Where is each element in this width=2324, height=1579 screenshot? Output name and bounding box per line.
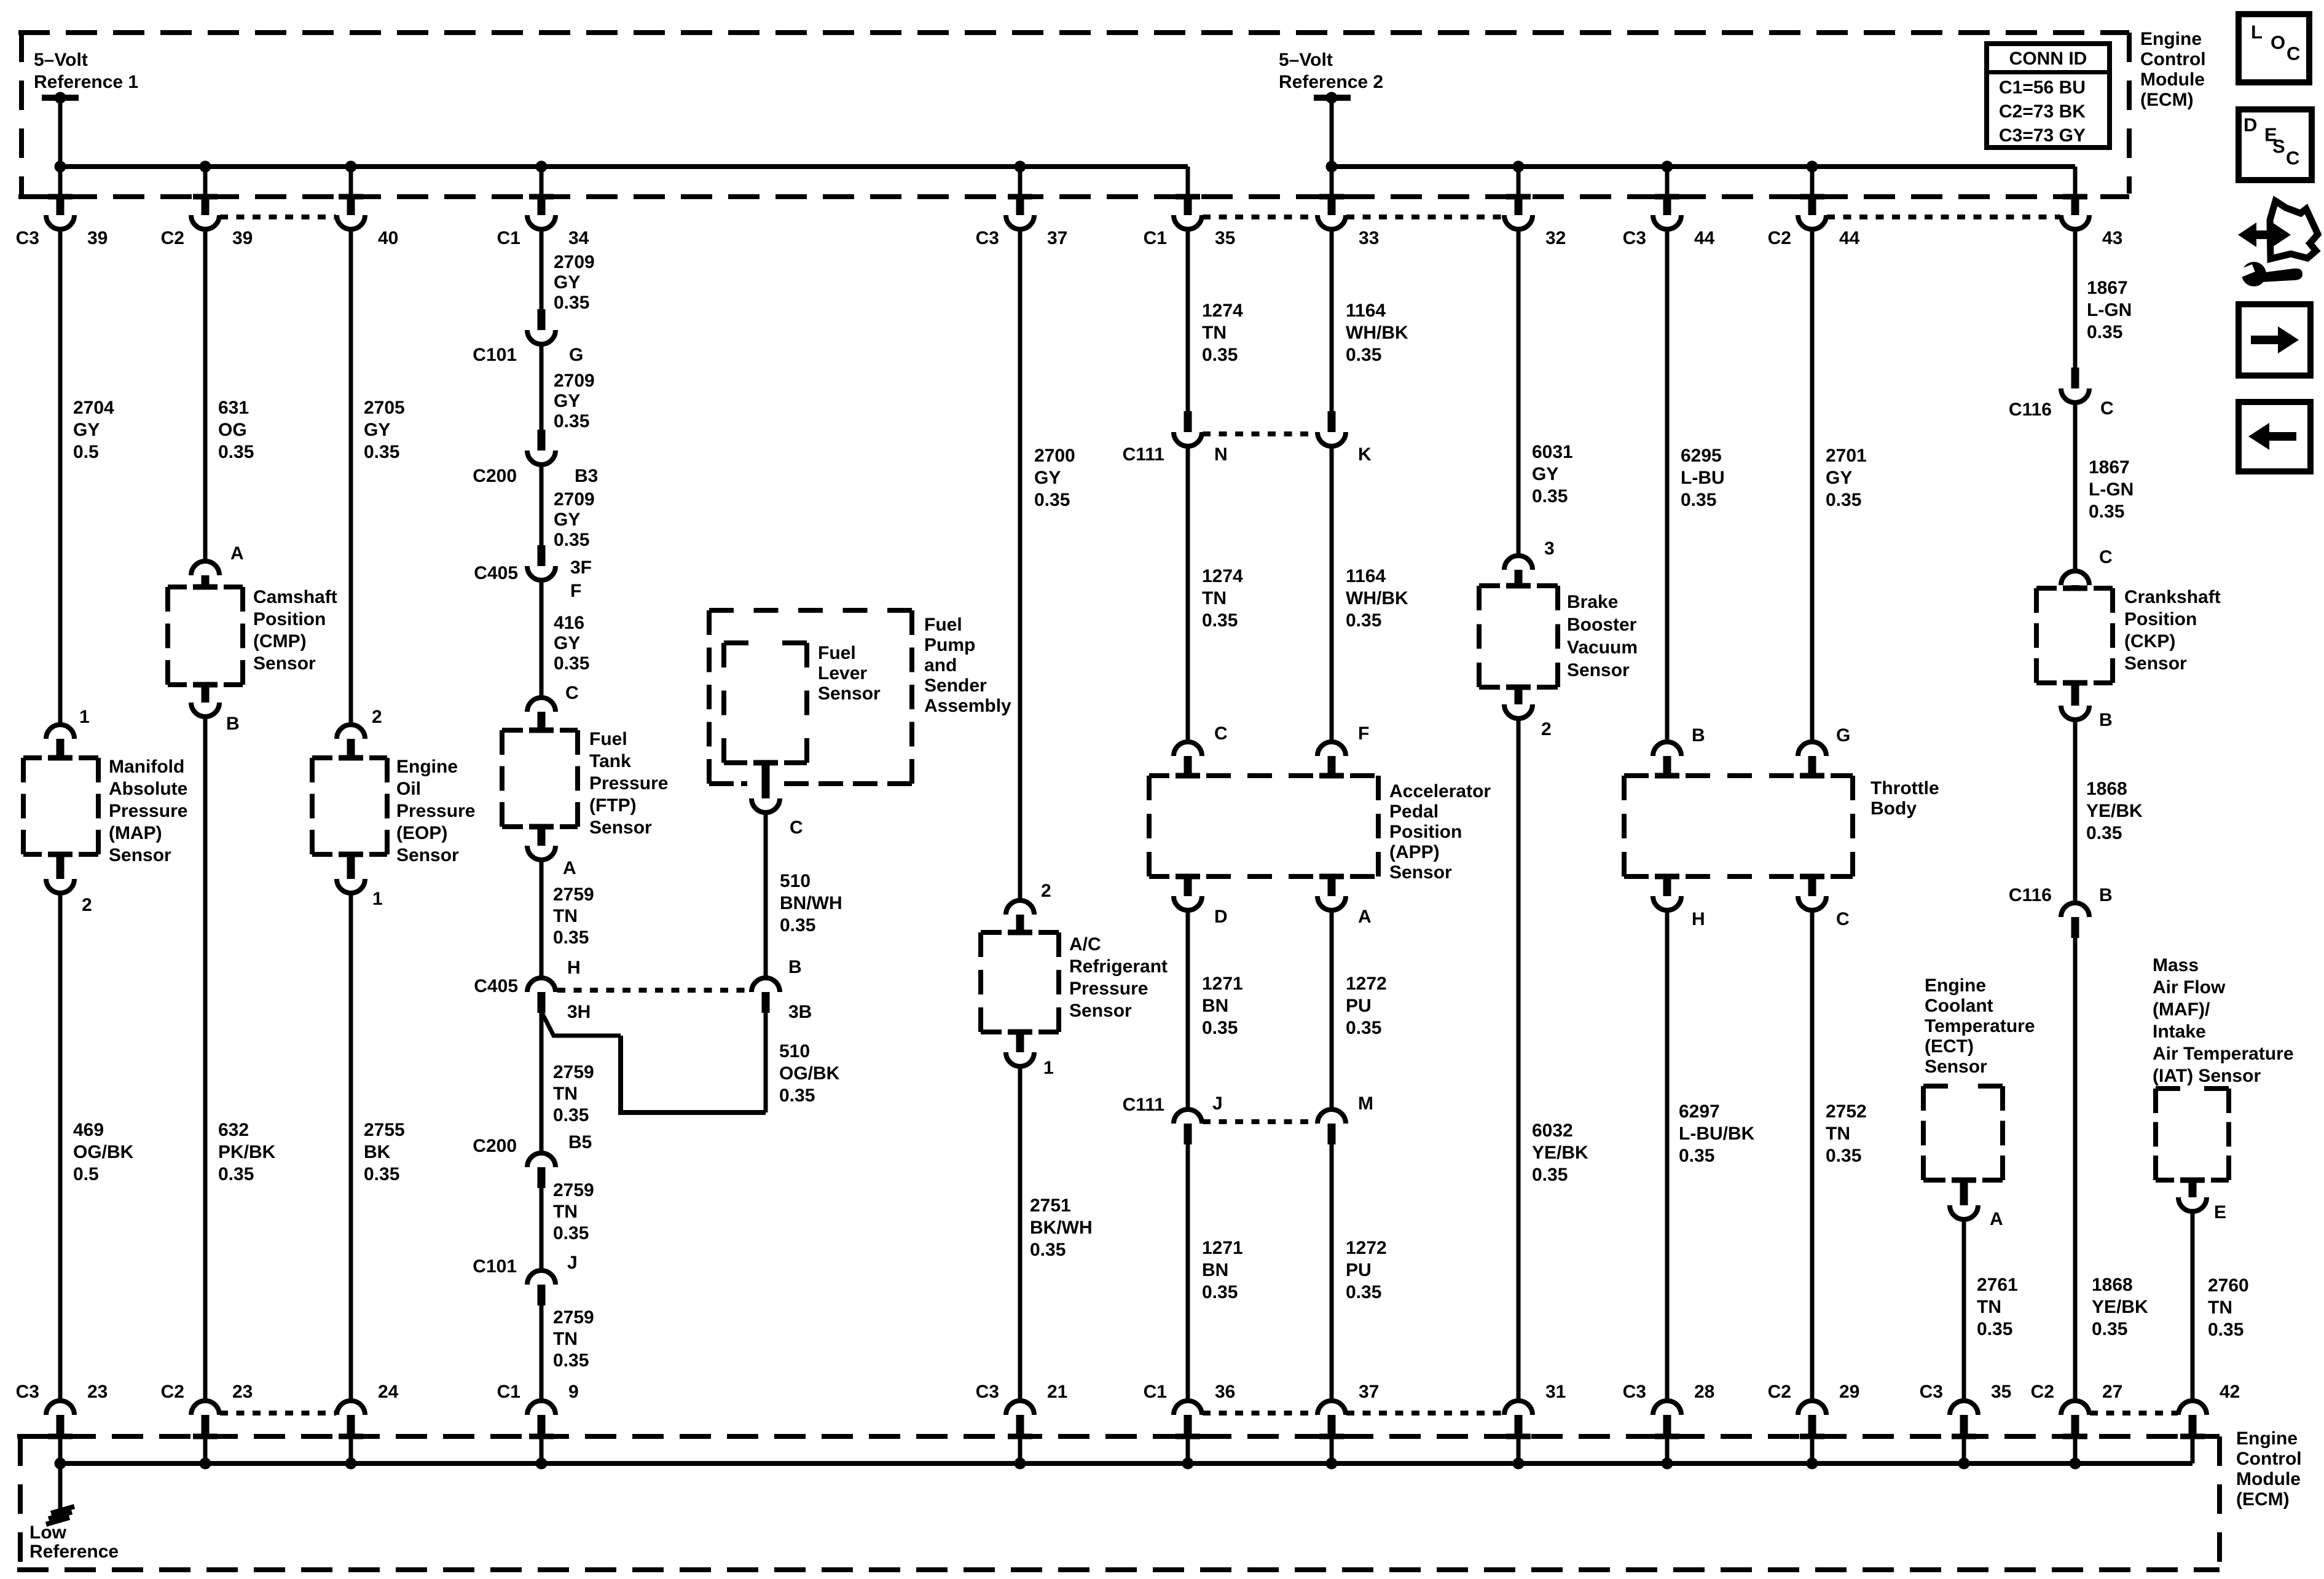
- CONN ID table: [1987, 44, 2110, 148]
- svg-text:0.35: 0.35: [553, 1223, 589, 1243]
- ECM bottom connector pin 9 (C1): [527, 1401, 555, 1415]
- svg-text:YE/BK: YE/BK: [2086, 801, 2143, 821]
- svg-text:Fuel: Fuel: [818, 643, 856, 663]
- A/C Refrigerant Pressure Sensor box: [978, 932, 983, 1032]
- wire 416 GY 0.35: [540, 582, 544, 696]
- svg-text:Position: Position: [253, 609, 326, 629]
- wire 2755 BK 0.35: [349, 895, 353, 1399]
- svg-text:44: 44: [1694, 228, 1715, 248]
- svg-text:3: 3: [1544, 538, 1555, 559]
- throttle body pin H: [1663, 876, 1671, 896]
- wire 1272 PU 0.35 (A to C111 M): [1330, 912, 1334, 1108]
- svg-text:Sensor: Sensor: [818, 683, 881, 704]
- svg-text:C3=73 GY: C3=73 GY: [1999, 125, 2086, 146]
- svg-text:Pump: Pump: [924, 635, 975, 655]
- svg-text:Engine: Engine: [1925, 975, 1986, 996]
- svg-text:0.35: 0.35: [218, 442, 254, 462]
- svg-text:0.35: 0.35: [554, 411, 589, 431]
- svg-text:C: C: [2287, 43, 2300, 65]
- svg-text:and: and: [924, 655, 957, 675]
- svg-text:Pedal: Pedal: [1389, 801, 1439, 822]
- svg-text:1: 1: [372, 889, 383, 909]
- svg-text:Pressure: Pressure: [109, 801, 187, 821]
- svg-text:B: B: [1692, 725, 1705, 746]
- APP sensor pin D: [1184, 876, 1192, 896]
- svg-text:Sensor: Sensor: [396, 845, 459, 865]
- svg-text:GY: GY: [1826, 468, 1852, 488]
- svg-text:C: C: [565, 683, 579, 703]
- wire 1867 L-GN 0.35 (C116 to CKP): [2073, 404, 2078, 569]
- svg-text:632: 632: [218, 1120, 249, 1140]
- wire 2759 TN 0.35 (A to C405 H): [540, 862, 544, 976]
- svg-text:Pressure: Pressure: [589, 773, 668, 793]
- svg-text:0.35: 0.35: [1030, 1240, 1066, 1260]
- ground Low Reference: [58, 1463, 63, 1510]
- svg-text:C: C: [790, 817, 803, 838]
- ECM bottom connector pin 31: [1504, 1401, 1533, 1415]
- Fuel Tank Pressure (FTP) Sensor box: [500, 730, 504, 827]
- svg-text:2704: 2704: [73, 398, 114, 418]
- svg-text:TN: TN: [553, 1329, 578, 1349]
- svg-text:C3: C3: [976, 228, 999, 248]
- dotted link C2-23 to 24: [220, 1411, 336, 1416]
- svg-text:0.35: 0.35: [1034, 490, 1070, 510]
- svg-text:Engine: Engine: [2140, 29, 2202, 49]
- wire 2751 BK/WH 0.35: [1018, 1068, 1023, 1399]
- svg-text:Vacuum: Vacuum: [1567, 637, 1638, 658]
- svg-text:TN: TN: [1977, 1297, 2001, 1317]
- wire 2704 GY 0.5: [58, 231, 63, 723]
- svg-text:0.5: 0.5: [73, 1164, 99, 1184]
- top ECM box bottom border: [18, 194, 2129, 199]
- ECM top connector pin 39 (C3): [58, 167, 63, 194]
- wire 510 BN/WH 0.35: [764, 814, 768, 976]
- dotted link 36 to 37: [1203, 1411, 1317, 1416]
- svg-text:Intake: Intake: [2153, 1022, 2206, 1042]
- svg-text:C1: C1: [1144, 1382, 1167, 1402]
- svg-text:Brake: Brake: [1567, 592, 1618, 612]
- svg-text:0.35: 0.35: [779, 1085, 815, 1106]
- wire 2705 GY 0.35: [349, 231, 353, 723]
- wire 2759 TN 0.35 (C101 to ECM 9): [540, 1305, 544, 1399]
- throttle body pin C: [1808, 876, 1816, 896]
- svg-text:42: 42: [2220, 1382, 2240, 1402]
- svg-text:C3: C3: [976, 1382, 999, 1402]
- svg-text:0.35: 0.35: [1679, 1146, 1714, 1166]
- svg-text:C: C: [1836, 909, 1850, 929]
- svg-text:2709: 2709: [554, 371, 595, 391]
- svg-text:B: B: [788, 957, 802, 977]
- svg-text:K: K: [1358, 444, 1372, 465]
- svg-text:Pressure: Pressure: [1069, 979, 1148, 999]
- svg-text:37: 37: [1047, 228, 1067, 248]
- icon arrow right box: [2239, 304, 2310, 376]
- svg-text:35: 35: [1991, 1382, 2011, 1402]
- svg-text:Low: Low: [29, 1522, 67, 1543]
- svg-text:6295: 6295: [1681, 446, 1722, 466]
- svg-text:Position: Position: [1389, 822, 1462, 842]
- svg-text:Position: Position: [2124, 609, 2197, 629]
- svg-text:G: G: [1836, 725, 1850, 746]
- svg-text:C3: C3: [1920, 1382, 1943, 1402]
- Engine Coolant Temperature (ECT) Sensor box: [1921, 1086, 1926, 1180]
- svg-text:F: F: [570, 581, 581, 601]
- MAF sensor pin E: [2189, 1180, 2197, 1197]
- svg-text:TN: TN: [1202, 588, 1227, 608]
- ECM top connector pin 32: [1517, 167, 1521, 194]
- svg-text:L-BU: L-BU: [1681, 468, 1725, 488]
- svg-text:O: O: [2271, 32, 2285, 53]
- ECM top connector pin 44 (C2): [1810, 167, 1815, 194]
- svg-text:5–Volt: 5–Volt: [1279, 50, 1333, 70]
- wire 2759 TN 0.35 (C200 to C101): [540, 1188, 544, 1269]
- svg-text:0.35: 0.35: [2086, 823, 2122, 843]
- svg-text:OG: OG: [218, 420, 247, 440]
- svg-text:YE/BK: YE/BK: [1532, 1143, 1588, 1163]
- svg-text:Coolant: Coolant: [1925, 996, 1993, 1016]
- svg-text:2701: 2701: [1826, 446, 1867, 466]
- svg-text:BN: BN: [1202, 1260, 1228, 1280]
- svg-text:WH/BK: WH/BK: [1346, 588, 1408, 608]
- svg-text:2760: 2760: [2208, 1275, 2249, 1296]
- svg-text:C3: C3: [1623, 228, 1646, 248]
- ECM bottom connector pin 29 (C2): [1798, 1401, 1826, 1415]
- wire 2700 GY 0.35: [1018, 231, 1023, 899]
- svg-text:(FTP): (FTP): [589, 795, 637, 816]
- svg-text:C116: C116: [2009, 400, 2052, 420]
- svg-text:416: 416: [554, 613, 584, 633]
- dotted link C2-39 to 40: [220, 215, 336, 219]
- svg-text:TN: TN: [1202, 323, 1227, 343]
- svg-text:1868: 1868: [2086, 779, 2127, 799]
- svg-text:OG/BK: OG/BK: [779, 1063, 840, 1084]
- svg-text:PU: PU: [1346, 1260, 1372, 1280]
- wire low reference bus: [60, 1461, 2192, 1466]
- svg-text:A: A: [563, 858, 576, 878]
- svg-text:2705: 2705: [364, 398, 405, 418]
- svg-text:Sender: Sender: [924, 675, 987, 696]
- svg-text:GY: GY: [554, 510, 580, 530]
- svg-text:B: B: [2099, 885, 2113, 905]
- svg-text:Air Temperature: Air Temperature: [2153, 1044, 2294, 1064]
- svg-text:28: 28: [1694, 1382, 1714, 1402]
- svg-text:469: 469: [73, 1120, 104, 1140]
- connector C405 pin 3F: [538, 545, 546, 566]
- CMP sensor pin B: [202, 685, 210, 703]
- svg-text:510: 510: [780, 871, 811, 891]
- svg-text:9: 9: [568, 1382, 579, 1402]
- svg-text:0.35: 0.35: [1826, 490, 1861, 510]
- svg-text:0.35: 0.35: [1202, 1282, 1238, 1302]
- svg-text:0.35: 0.35: [553, 927, 589, 948]
- svg-text:A: A: [1990, 1209, 2003, 1229]
- svg-text:GY: GY: [554, 633, 580, 653]
- wire 510 OG/BK 0.35: [764, 1013, 768, 1112]
- svg-text:H: H: [567, 958, 581, 978]
- svg-text:1: 1: [79, 707, 90, 727]
- svg-text:C2: C2: [2031, 1382, 2054, 1402]
- Accelerator Pedal Position (APP) Sensor box: [1147, 776, 1152, 876]
- svg-text:C2: C2: [1768, 1382, 1791, 1402]
- svg-text:2: 2: [372, 707, 382, 727]
- svg-text:TN: TN: [553, 906, 578, 926]
- wire 1272 PU 0.35 (C111 to ECM 37): [1330, 1144, 1334, 1399]
- svg-text:GY: GY: [554, 272, 580, 293]
- svg-text:C2: C2: [161, 1382, 184, 1402]
- svg-text:44: 44: [1839, 228, 1860, 248]
- svg-text:510: 510: [779, 1041, 810, 1061]
- wire 1164 WH/BK 0.35 (C111 to APP F): [1330, 448, 1334, 740]
- svg-text:2: 2: [1541, 719, 1552, 739]
- wire 2760 TN 0.35: [2191, 1213, 2195, 1399]
- ECM top connector pin 44 (C3): [1665, 167, 1670, 194]
- svg-text:C200: C200: [473, 466, 517, 486]
- svg-text:23: 23: [232, 1382, 253, 1402]
- dotted link 37 to 31: [1346, 1411, 1504, 1416]
- Manifold Absolute Pressure (MAP) Sensor box: [21, 758, 26, 854]
- svg-text:0.35: 0.35: [1532, 486, 1568, 506]
- svg-text:Accelerator: Accelerator: [1389, 781, 1491, 801]
- svg-text:0.35: 0.35: [1826, 1146, 1861, 1166]
- svg-text:1271: 1271: [1202, 1238, 1243, 1258]
- svg-text:L-BU/BK: L-BU/BK: [1679, 1124, 1755, 1144]
- wire 469 OG/BK 0.5: [58, 895, 63, 1399]
- ECM bottom connector pin 42: [2178, 1401, 2207, 1415]
- svg-text:A: A: [1358, 907, 1372, 927]
- icon arrow left box: [2239, 402, 2310, 471]
- svg-text:H: H: [1692, 909, 1705, 929]
- svg-text:B5: B5: [568, 1132, 592, 1152]
- svg-text:34: 34: [568, 228, 589, 248]
- svg-text:0.35: 0.35: [554, 530, 589, 550]
- svg-text:2755: 2755: [364, 1120, 405, 1140]
- ECM bottom connector pin 24: [337, 1401, 365, 1415]
- svg-text:D: D: [2244, 114, 2257, 136]
- svg-text:0.35: 0.35: [364, 442, 399, 462]
- wire 2761 TN 0.35: [1962, 1221, 1966, 1399]
- svg-text:L-GN: L-GN: [2089, 479, 2134, 500]
- svg-text:6031: 6031: [1532, 442, 1573, 462]
- svg-text:1867: 1867: [2087, 278, 2128, 298]
- svg-text:3B: 3B: [788, 1002, 812, 1022]
- svg-text:(IAT) Sensor: (IAT) Sensor: [2153, 1066, 2261, 1086]
- svg-text:BN/WH: BN/WH: [780, 893, 842, 913]
- svg-text:Manifold: Manifold: [109, 757, 184, 777]
- svg-text:C3: C3: [16, 228, 39, 248]
- svg-text:(ECM): (ECM): [2140, 90, 2194, 110]
- svg-text:39: 39: [87, 228, 108, 248]
- ECT sensor pin A: [1960, 1180, 1968, 1205]
- svg-text:C101: C101: [473, 345, 517, 365]
- svg-text:31: 31: [1545, 1382, 1566, 1402]
- wire 1271 BN 0.35 (C111 to ECM 36): [1186, 1144, 1190, 1399]
- svg-text:GY: GY: [1532, 464, 1558, 484]
- connector C200 pin B3: [538, 430, 546, 451]
- svg-text:C2: C2: [1768, 228, 1791, 248]
- svg-text:Refrigerant: Refrigerant: [1069, 956, 1168, 977]
- svg-text:C111: C111: [1123, 444, 1164, 465]
- svg-text:B: B: [2099, 710, 2113, 730]
- svg-text:TN: TN: [553, 1202, 578, 1222]
- ECM bottom connector pin 23 (C2): [191, 1401, 219, 1415]
- svg-text:Pressure: Pressure: [396, 801, 475, 821]
- svg-text:GY: GY: [73, 420, 100, 440]
- svg-text:40: 40: [378, 228, 398, 248]
- dotted link C405 H to B: [557, 988, 750, 993]
- top ECM box border (Engine Control Module): [18, 30, 2129, 35]
- svg-text:23: 23: [87, 1382, 108, 1402]
- svg-text:631: 631: [218, 398, 249, 418]
- svg-text:Oil: Oil: [396, 779, 421, 799]
- svg-text:(EOP): (EOP): [396, 823, 447, 843]
- svg-text:(ECT): (ECT): [1925, 1036, 1974, 1057]
- wire 1164 WH/BK 0.35 (33 to C111 K): [1330, 231, 1334, 411]
- brake booster pin 2: [1515, 687, 1523, 704]
- svg-text:Assembly: Assembly: [924, 696, 1011, 716]
- Throttle Body box: [1622, 776, 1627, 876]
- svg-text:Throttle: Throttle: [1871, 778, 1939, 798]
- dotted link C2-44 to 43: [1827, 215, 2060, 219]
- svg-text:0.35: 0.35: [1202, 610, 1238, 631]
- svg-text:C3: C3: [1623, 1382, 1646, 1402]
- dotted link C111 N to K: [1203, 431, 1317, 436]
- svg-text:0.35: 0.35: [1346, 1018, 1381, 1038]
- svg-text:C: C: [1214, 723, 1228, 744]
- Fuel Lever Sensor box: [721, 643, 726, 763]
- svg-text:C1: C1: [497, 1382, 520, 1402]
- svg-text:Engine: Engine: [2236, 1428, 2298, 1449]
- svg-text:0.35: 0.35: [554, 293, 589, 313]
- connector C116 pin C: [2071, 368, 2079, 388]
- wire 1271 BN 0.35 (D to C111 J): [1186, 912, 1190, 1108]
- dotted link C111 J to M: [1203, 1119, 1317, 1124]
- svg-text:TN: TN: [553, 1084, 578, 1104]
- svg-text:Sensor: Sensor: [253, 653, 316, 674]
- dotted link 27 to 42: [2090, 1411, 2178, 1416]
- wire 1274 TN 0.35 (35 to C111 N): [1186, 231, 1190, 411]
- svg-text:3F: 3F: [570, 557, 592, 578]
- svg-text:0.35: 0.35: [1346, 345, 1381, 365]
- svg-text:Sensor: Sensor: [109, 845, 171, 865]
- svg-text:(MAP): (MAP): [109, 823, 162, 843]
- svg-text:C405: C405: [474, 976, 518, 996]
- svg-text:29: 29: [1839, 1382, 1859, 1402]
- ECM top connector pin 33: [1330, 167, 1334, 194]
- svg-text:27: 27: [2102, 1382, 2122, 1402]
- fuel sender pin C: [762, 763, 770, 798]
- svg-text:1868: 1868: [2092, 1275, 2133, 1295]
- svg-text:1272: 1272: [1346, 974, 1387, 994]
- svg-text:1272: 1272: [1346, 1238, 1387, 1258]
- svg-text:BK: BK: [364, 1142, 391, 1162]
- svg-text:2759: 2759: [553, 1307, 594, 1328]
- APP sensor pin A: [1328, 876, 1336, 896]
- svg-text:0.35: 0.35: [2089, 502, 2124, 522]
- svg-text:E: E: [2214, 1202, 2226, 1223]
- svg-text:43: 43: [2102, 228, 2122, 248]
- svg-text:Control: Control: [2236, 1449, 2302, 1469]
- svg-text:TN: TN: [1826, 1124, 1850, 1144]
- svg-text:2759: 2759: [553, 1062, 594, 1082]
- svg-text:Reference: Reference: [29, 1542, 119, 1562]
- svg-text:YE/BK: YE/BK: [2092, 1297, 2148, 1317]
- ECM bottom connector pin 23 (C3): [46, 1401, 74, 1415]
- svg-text:(ECM): (ECM): [2236, 1489, 2290, 1510]
- ECM bottom connector pin 21 (C3): [1006, 1401, 1034, 1415]
- svg-text:1274: 1274: [1202, 301, 1243, 321]
- svg-text:5–Volt: 5–Volt: [34, 50, 88, 70]
- svg-text:2761: 2761: [1977, 1275, 2018, 1295]
- svg-text:Fuel: Fuel: [589, 729, 627, 749]
- ECM top connector pin 43: [2073, 167, 2078, 194]
- wire 2752 TN 0.35: [1810, 912, 1815, 1399]
- svg-text:32: 32: [1545, 228, 1566, 248]
- svg-text:2759: 2759: [553, 884, 594, 905]
- FTP sensor pin A: [538, 827, 546, 846]
- svg-text:2700: 2700: [1034, 446, 1075, 466]
- dotted link 35 to 33: [1203, 215, 1317, 219]
- svg-text:2709: 2709: [554, 489, 595, 510]
- wire 5V reference 1 bus: [60, 164, 1188, 169]
- svg-text:C116: C116: [2009, 885, 2052, 905]
- svg-text:Engine: Engine: [396, 757, 458, 777]
- wire 632 PK/BK 0.35: [203, 719, 208, 1399]
- wire 1868 YE/BK 0.35 (C116 to ECM 27): [2073, 938, 2078, 1399]
- EOP sensor pin 1: [347, 854, 355, 879]
- svg-text:TN: TN: [2208, 1297, 2232, 1318]
- svg-text:2751: 2751: [1030, 1195, 1071, 1216]
- svg-text:D: D: [1214, 907, 1228, 927]
- svg-text:A: A: [230, 543, 244, 564]
- Fuel Pump and Sender Assembly box: [707, 610, 712, 784]
- ECM top connector pin 34 (C1): [540, 167, 544, 194]
- svg-text:2759: 2759: [553, 1180, 594, 1200]
- svg-text:1164: 1164: [1346, 301, 1386, 321]
- svg-text:S: S: [2272, 136, 2285, 157]
- ECM bottom connector pin 36 (C1): [1174, 1401, 1202, 1415]
- svg-text:35: 35: [1215, 228, 1235, 248]
- svg-text:0.35: 0.35: [553, 1105, 589, 1125]
- wire 631 OG 0.35: [203, 231, 208, 559]
- svg-text:C405: C405: [474, 563, 518, 583]
- wire 1868 YE/BK 0.35 (B to C116): [2073, 722, 2078, 901]
- icon wrench and part with double arrow: [2238, 222, 2291, 247]
- ECM bottom connector pin 37: [1317, 1401, 1346, 1415]
- svg-text:2: 2: [1041, 881, 1051, 901]
- wire splice 3H branch: [541, 1012, 621, 1036]
- svg-text:0.35: 0.35: [2208, 1320, 2244, 1340]
- svg-text:0.35: 0.35: [1532, 1165, 1568, 1185]
- svg-text:Sensor: Sensor: [1389, 862, 1452, 883]
- svg-text:1867: 1867: [2089, 457, 2130, 478]
- svg-text:6032: 6032: [1532, 1120, 1573, 1141]
- svg-text:Sensor: Sensor: [1069, 1001, 1132, 1021]
- svg-text:6297: 6297: [1679, 1101, 1720, 1122]
- CKP sensor pin B: [2071, 683, 2079, 706]
- svg-text:36: 36: [1215, 1382, 1235, 1402]
- svg-text:Sensor: Sensor: [1925, 1057, 1987, 1077]
- svg-text:Lever: Lever: [818, 663, 867, 683]
- svg-text:PK/BK: PK/BK: [218, 1142, 276, 1162]
- Mass Air Flow (MAF)/Intake Air Temperature (IAT) Sensor box: [2153, 1089, 2158, 1180]
- svg-text:Absolute: Absolute: [109, 779, 187, 799]
- svg-text:0.35: 0.35: [554, 653, 589, 674]
- svg-text:0.35: 0.35: [553, 1350, 589, 1371]
- svg-text:C2=73 BK: C2=73 BK: [1999, 101, 2086, 122]
- svg-text:C111: C111: [1123, 1095, 1164, 1115]
- wire 6295 L-BU 0.35: [1665, 231, 1670, 740]
- svg-text:2: 2: [82, 895, 92, 915]
